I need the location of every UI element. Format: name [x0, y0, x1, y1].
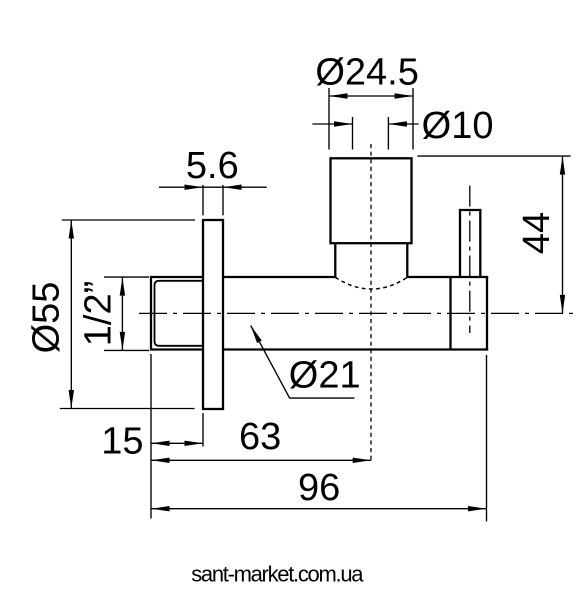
svg-text:63: 63 — [239, 416, 281, 458]
valve body: right end cap right edge — [486, 277, 488, 350]
dimension 5.6: dimension line — [159, 186, 267, 188]
svg-text:Ø10: Ø10 — [422, 105, 494, 147]
dimension 96: dimension line — [151, 508, 487, 510]
dimension Ø24.5: arrows — [329, 93, 348, 98]
vertical port neck right line — [406, 243, 408, 278]
svg-text:sant-market.com.ua: sant-market.com.ua — [191, 561, 364, 586]
valve head cylinder — [331, 158, 412, 243]
svg-text:5.6: 5.6 — [186, 145, 239, 187]
dimension Ø55: dimension line — [70, 220, 72, 409]
dimension 15/63/96: common left extension line — [151, 354, 487, 522]
outlet pipe (right) — [460, 210, 480, 277]
dimension 15: arrows — [151, 441, 170, 446]
valve body: main tube top line (right of vertical port) — [406, 276, 488, 278]
svg-text:96: 96 — [298, 467, 340, 509]
dimension 15: dimension line — [151, 442, 203, 444]
svg-text:44: 44 — [516, 212, 558, 254]
dimension Ø24.5: dimension line — [329, 95, 413, 97]
hidden intersection arc (dashed) — [335, 277, 407, 289]
svg-text:15: 15 — [101, 421, 143, 463]
vertical centerline of outlet pipe — [469, 186, 471, 333]
svg-text:1/2”: 1/2” — [77, 281, 119, 346]
svg-text:Ø24.5: Ø24.5 — [315, 52, 419, 94]
wall flange plate — [203, 220, 223, 409]
svg-text:Ø21: Ø21 — [289, 355, 361, 397]
dimension 5.6: arrows — [185, 185, 204, 190]
dimension 96: arrows — [151, 506, 170, 511]
valve body: threaded connector outer outline — [151, 277, 203, 350]
valve body: main tube top line (left of vertical port) — [223, 276, 336, 278]
valve body: thread inner line — [155, 281, 211, 346]
dimension 1/2": dimension line — [121, 277, 123, 350]
dimension 63: arrows — [151, 458, 170, 463]
dimension Ø55: arrows — [69, 220, 74, 239]
dimension 63: dimension line — [151, 459, 371, 461]
extension line from body right end — [486, 355, 488, 522]
dimension 44: arrows — [560, 156, 565, 175]
dimension 44: extension line — [417, 156, 570, 313]
vertical port neck left line — [334, 243, 336, 278]
dimension Ø21: leader line — [251, 326, 355, 399]
svg-text:Ø55: Ø55 — [26, 282, 68, 354]
valve body: main tube bottom line — [223, 348, 488, 350]
dimension Ø10: dimension line — [312, 123, 352, 125]
dimension 1/2": extension lines — [104, 277, 149, 350]
dimension Ø10: arrows — [334, 121, 353, 126]
dimension Ø55: extension lines — [60, 220, 195, 409]
dimension 1/2": arrows — [120, 277, 125, 296]
dimension Ø10: extension lines — [312, 117, 418, 150]
vertical centerline of valve head — [370, 144, 372, 463]
extension line from flange left edge — [202, 413, 204, 447]
dimension Ø24.5: extension lines — [329, 88, 413, 150]
dimension Ø21: leader arrow — [251, 326, 262, 344]
dimension 5.6: extension lines — [159, 185, 267, 215]
horizontal centerline of body — [139, 312, 576, 314]
dimension 44: dimension line — [562, 156, 564, 313]
valve body: right end cap left edge — [449, 277, 451, 350]
